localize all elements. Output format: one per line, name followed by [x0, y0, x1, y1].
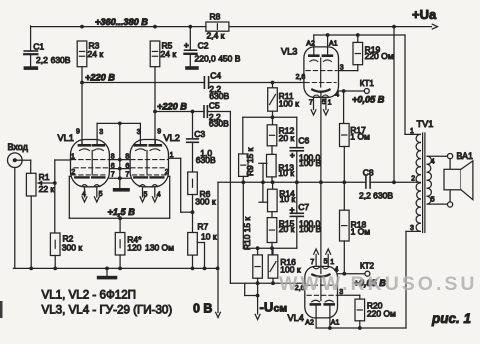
- label +Ua: [412, 7, 437, 22]
- node junction R3 top: [80, 25, 84, 29]
- node bus center: [118, 216, 122, 220]
- tube VL4 envelope: [305, 266, 338, 318]
- wire -Ucm arrow: [255, 283, 260, 319]
- wire R7 tap: [197, 243, 204, 269]
- svg-text:C4: C4: [210, 71, 221, 81]
- pin 4 VL2: [157, 192, 161, 199]
- label VL2: [164, 133, 180, 143]
- svg-text:A1: A1: [331, 320, 340, 327]
- svg-text:7: 7: [111, 171, 115, 178]
- node R17 R18 node: [342, 180, 346, 184]
- tube VL4 cathode: [312, 275, 329, 277]
- wire TV1 pin3 stub: [406, 230, 420, 232]
- wire R16 leads: [272, 248, 274, 283]
- wire VL3 screen to R19: [339, 70, 358, 72]
- svg-text:2,4 к: 2,4 к: [207, 30, 225, 40]
- svg-text:9: 9: [157, 129, 161, 136]
- wire tee right to C6: [296, 117, 298, 147]
- wire VL3 cathode drop: [320, 92, 322, 183]
- resistor R5: [150, 41, 176, 67]
- tube VL4 heater: [313, 267, 329, 269]
- pin 7 VL2 side: [125, 171, 129, 178]
- wire VL2 pin2 to bus: [169, 176, 170, 218]
- svg-text:300 к: 300 к: [195, 196, 216, 206]
- svg-text:1: 1: [71, 153, 75, 160]
- wire cathode feedback rail: [218, 181, 417, 183]
- svg-text:VL1, VL2 - 6Ф12П: VL1, VL2 - 6Ф12П: [42, 289, 137, 302]
- pin 4 TV1: [431, 159, 435, 166]
- svg-text:10 к: 10 к: [280, 194, 296, 204]
- resistor R12: [267, 125, 294, 146]
- svg-text:630В: 630В: [209, 119, 229, 129]
- tube VL2 center bar: [146, 151, 148, 175]
- svg-text:-U: -U: [260, 300, 274, 315]
- svg-text:+1,5 В: +1,5 В: [108, 207, 136, 217]
- svg-text:220,0: 220,0: [195, 53, 217, 63]
- wire R7 bottom: [192, 255, 194, 268]
- tube VL3 heater: [313, 95, 329, 97]
- label ris 1: [431, 311, 471, 326]
- label 2,6 VL4 grid: [295, 285, 305, 292]
- pin 4 VL3: [335, 92, 339, 99]
- wire R13 tap: [259, 163, 267, 182]
- svg-text:R10 15 к: R10 15 к: [242, 217, 252, 250]
- node R4 ground: [118, 267, 122, 271]
- svg-text:24 к: 24 к: [88, 49, 104, 59]
- svg-text:100 В: 100 В: [299, 224, 322, 234]
- svg-text:5: 5: [99, 191, 103, 198]
- tube VL3 grid dash: [305, 82, 336, 84]
- label +1,5 V: [108, 207, 136, 217]
- node R20 bottom: [358, 326, 362, 330]
- svg-text:9: 9: [76, 129, 80, 136]
- pin A2 VL4: [305, 320, 314, 327]
- svg-text:450 В: 450 В: [218, 53, 241, 63]
- pin 1 TV1: [410, 128, 414, 135]
- wire +220 line upper: [82, 67, 305, 83]
- tube VL2 grid dash low: [133, 174, 168, 176]
- tube VL1 cathode: [75, 176, 104, 178]
- wire VL2 pin1 to junction: [169, 158, 193, 212]
- resistor R3: [77, 41, 103, 67]
- tube VL1 grid dash mid: [74, 167, 109, 169]
- wire +220 line lower: [155, 67, 230, 112]
- node R7 bottom ground: [191, 267, 195, 271]
- tube VL2 pentode anode: [135, 140, 146, 146]
- tube VL4 grid dash: [306, 284, 336, 286]
- wire TV1 pin5 stub: [427, 203, 447, 205]
- wire TV1 pin2 stub: [417, 181, 421, 183]
- pin 1 VL4: [330, 259, 334, 266]
- svg-text:A1: A1: [329, 40, 338, 47]
- svg-text:3: 3: [340, 64, 344, 71]
- label +220 V second: [157, 101, 187, 111]
- ground C1: [24, 66, 38, 70]
- wire 8-8 link: [109, 159, 130, 161]
- capacitor C1: [24, 41, 71, 65]
- svg-text:1: 1: [330, 259, 334, 266]
- pin 1 VL2: [170, 152, 174, 159]
- wire C3 to R6: [192, 142, 194, 172]
- svg-text:2,2: 2,2: [36, 55, 48, 65]
- resistor R17: [340, 91, 371, 147]
- wire R6 to R7: [192, 195, 194, 233]
- resistor R18: [340, 182, 371, 241]
- wire +Ua to transformer: [393, 27, 395, 183]
- wire VL3 anode leads: [314, 35, 328, 55]
- pin 1 VL1: [71, 153, 75, 160]
- svg-text:2,6: 2,6: [296, 74, 306, 81]
- resistor R4: [115, 233, 174, 256]
- label R10 rotated: [242, 217, 252, 250]
- svg-text:10 к: 10 к: [278, 168, 294, 178]
- svg-text:4: 4: [82, 191, 86, 198]
- svg-text:1: 1: [328, 99, 332, 106]
- pin 3 VL1: [99, 129, 103, 136]
- svg-text:C1: C1: [33, 41, 44, 51]
- tube VL2 grid dash top: [131, 159, 168, 161]
- terminal KT1: [360, 79, 375, 93]
- wire VL1 pin9 feed: [81, 83, 83, 145]
- svg-text:R9 15 к: R9 15 к: [245, 147, 255, 176]
- svg-text:3: 3: [99, 129, 103, 136]
- pin A1 VL3: [329, 40, 338, 47]
- wire R18 bottom: [343, 241, 345, 274]
- wire VL4 grid bias line: [230, 282, 305, 284]
- svg-text:рис. 1: рис. 1: [431, 311, 471, 326]
- wire VL4 anode line: [316, 231, 406, 328]
- node R16 bottom: [271, 281, 275, 285]
- svg-text:C3: C3: [194, 129, 205, 139]
- tube VL3 cathode: [312, 90, 329, 92]
- wire VL2 pin9 feed: [154, 112, 156, 145]
- label +360...380 V: [95, 17, 148, 27]
- pin 4 VL4: [335, 266, 339, 273]
- pin 7 VL3: [309, 99, 313, 106]
- resistor R9: [239, 154, 248, 177]
- tube VL2 cathode: [134, 176, 163, 178]
- connector XS1 input jack: [8, 153, 23, 168]
- tube VL3 anodes: [309, 54, 332, 57]
- svg-text:3: 3: [410, 225, 414, 232]
- node A1 junction: [326, 33, 330, 37]
- svg-text:5: 5: [431, 197, 435, 204]
- wire C5 output drop: [229, 112, 231, 284]
- wire R4 bottom: [119, 255, 121, 268]
- wire VL3 heater arrows: [311, 97, 328, 115]
- label BA1: [457, 151, 473, 161]
- wire R13 bottom: [271, 177, 273, 182]
- label 0 V: [193, 302, 212, 316]
- pin 6 VL2 side: [125, 163, 129, 170]
- label +0,05 V KT2: [354, 278, 387, 288]
- svg-text:0 В: 0 В: [193, 302, 212, 316]
- resistor R20: [355, 295, 396, 321]
- svg-text:4: 4: [431, 159, 435, 166]
- pin 2 TV1: [411, 175, 415, 182]
- wire R11 bottom tee: [243, 111, 297, 125]
- terminal BA1 top: [448, 154, 453, 159]
- capacitor C6 electrolytic: [290, 135, 322, 168]
- node pin3 bridge center: [118, 122, 122, 126]
- resistor R11: [268, 88, 299, 111]
- wire R2 bottom: [54, 256, 56, 269]
- svg-text:см: см: [274, 303, 288, 315]
- node junction C2 top: [188, 25, 192, 29]
- pin 3 VL3: [340, 64, 344, 71]
- node R9 bottom: [241, 180, 245, 184]
- wire 0V arrow: [216, 182, 221, 317]
- pin A1 VL4: [331, 320, 340, 327]
- svg-text:5: 5: [144, 192, 148, 199]
- svg-text:+Ua: +Ua: [412, 7, 437, 22]
- label VL1: [58, 133, 74, 143]
- wire 6-6 link: [109, 168, 130, 170]
- pin 5 TV1: [431, 197, 435, 204]
- wire cathode bus: [69, 217, 169, 219]
- wire input to R1: [17, 160, 31, 173]
- tube VL1 anode arcs: [80, 149, 104, 151]
- svg-text:2: 2: [411, 175, 415, 182]
- node rail to 0V arrow: [216, 267, 220, 271]
- svg-text:C5: C5: [209, 101, 220, 111]
- resistor R6: [188, 172, 216, 206]
- tube VL1 grid dash top: [72, 159, 109, 161]
- node R15 R16 junction: [270, 246, 274, 250]
- node C6 C7 node: [295, 180, 299, 184]
- svg-text:R7: R7: [197, 222, 208, 232]
- svg-text:22 к: 22 к: [39, 184, 55, 194]
- resistor R16: [268, 255, 301, 278]
- wire VL2 heater arrows: [140, 187, 157, 202]
- wire R19 bottom: [357, 65, 359, 71]
- svg-text:1: 1: [170, 152, 174, 159]
- wire R9 bottom and drop: [242, 176, 244, 248]
- node VL2 grid junction: [191, 210, 195, 214]
- resistor R15: [267, 218, 294, 243]
- tube VL4 anodes: [311, 303, 334, 306]
- svg-text:TV1: TV1: [417, 119, 434, 129]
- node chassis ground stub: [105, 267, 109, 271]
- node 6 link: [118, 167, 122, 171]
- capacitor C5: [204, 101, 229, 129]
- tube VL3 envelope: [304, 47, 339, 97]
- svg-text:120: 120: [127, 242, 141, 252]
- label tube types line2: [42, 304, 173, 317]
- svg-text:20 к: 20 к: [279, 133, 295, 143]
- wire TV1 pin1 stub: [405, 133, 420, 135]
- wire tee left to R9: [242, 117, 244, 154]
- wire R11 top lead: [272, 83, 274, 88]
- wire 7-7 link: [109, 177, 130, 179]
- node R10 top junction: [256, 246, 260, 250]
- svg-text:630В: 630В: [196, 155, 216, 165]
- node wiper junction: [53, 181, 57, 185]
- svg-text:C6: C6: [298, 135, 309, 145]
- svg-text:R1: R1: [39, 172, 50, 182]
- wire -Ucm stub: [245, 283, 258, 295]
- svg-text:+: +: [184, 41, 189, 50]
- watermark www.rkuso.su: [279, 273, 477, 296]
- wire +360V top supply rail: [31, 24, 438, 29]
- wire VL3 pin4 line: [339, 90, 365, 92]
- resistor R1 potentiometer: [26, 172, 54, 196]
- resistor R13: [267, 154, 295, 178]
- tube VL2 triode anode: [150, 140, 161, 146]
- resistor R8: [206, 12, 229, 41]
- svg-text:1: 1: [410, 128, 414, 135]
- pin 9 VL2: [157, 129, 161, 136]
- resistor R14: [268, 189, 296, 212]
- scan artifact left edge: [0, 301, 3, 318]
- pin 1 VL3: [328, 99, 332, 106]
- svg-text:VL2: VL2: [164, 133, 180, 143]
- ground chassis on rail: [97, 268, 118, 279]
- svg-text:220 Ом: 220 Ом: [365, 51, 394, 61]
- label VL3: [281, 47, 297, 57]
- svg-text:1 Ом: 1 Ом: [351, 226, 371, 236]
- tube VL2 grid dash mid: [131, 167, 165, 169]
- wire R14 R15: [271, 212, 273, 218]
- svg-text:8: 8: [111, 153, 115, 160]
- pin 3 TV1: [410, 225, 414, 232]
- svg-text:R8: R8: [210, 12, 221, 22]
- svg-text:Вход: Вход: [8, 142, 29, 152]
- pin 2 VL2: [165, 169, 169, 176]
- wire R20 bottom lead: [359, 321, 361, 328]
- wire C1 to rail: [30, 26, 32, 66]
- svg-text:+220 В: +220 В: [157, 101, 187, 111]
- node 8 link: [118, 158, 122, 162]
- wire 0V ground rail: [14, 267, 219, 269]
- svg-text:КТ2: КТ2: [360, 262, 375, 271]
- wire VL4 screen to R20: [338, 294, 360, 296]
- svg-text:630В: 630В: [51, 55, 71, 65]
- wire center drop: [119, 123, 121, 188]
- wire R1 wiper: [37, 180, 55, 185]
- svg-text:6: 6: [125, 163, 129, 170]
- tube VL1 envelope: [71, 140, 110, 187]
- svg-text:24 к: 24 к: [161, 49, 177, 59]
- node R11 top junction: [271, 81, 275, 85]
- pin 7 VL1 side: [111, 171, 115, 178]
- wire TV1 pin4 stub: [427, 155, 447, 157]
- node R10 bottom: [256, 281, 260, 285]
- node R13 bottom: [271, 180, 275, 184]
- node R11 R12 junction: [271, 115, 275, 119]
- wire R12 R13: [271, 146, 273, 155]
- transformer TV1 primary winding: [416, 134, 420, 231]
- transformer TV1 core: [423, 133, 425, 233]
- tube VL3 screen dash: [306, 70, 337, 72]
- node pin4 R18 junction: [342, 272, 346, 276]
- pin A2 VL3: [306, 40, 315, 47]
- label TV1: [417, 119, 434, 129]
- label VL4: [288, 313, 304, 323]
- speaker BA1: [444, 161, 473, 200]
- svg-text:130 Ом: 130 Ом: [145, 242, 174, 252]
- svg-text:+: +: [290, 204, 295, 214]
- node C3 tap: [191, 110, 195, 114]
- svg-text:C7: C7: [298, 202, 309, 212]
- svg-text:5: 5: [324, 259, 328, 266]
- wire R15 bottom: [271, 243, 273, 255]
- svg-text:10 к: 10 к: [201, 232, 217, 242]
- pin 5 VL1: [99, 191, 103, 198]
- terminal BA1 bottom: [448, 202, 453, 207]
- wire C3 top lead: [192, 112, 194, 139]
- ground inter-tube: [113, 188, 130, 192]
- wire wiper to VL1 grid: [55, 160, 71, 183]
- node VL3 cathode node: [319, 180, 323, 184]
- svg-text:+360...380 В: +360...380 В: [95, 17, 148, 27]
- node R2 ground: [53, 267, 57, 271]
- resistor R19: [353, 35, 394, 65]
- pin 3 VL2: [137, 129, 141, 136]
- node Ua drop C8 node: [392, 180, 396, 184]
- capacitor C4: [204, 71, 229, 102]
- node R3 bottom junction: [80, 81, 84, 85]
- wire C2 lead: [189, 27, 191, 67]
- tube VL1 pentode anode: [93, 140, 104, 146]
- capacitor C3: [187, 129, 216, 165]
- wire VL4 heater arrows: [314, 249, 331, 266]
- tube VL3 center bar: [320, 58, 322, 87]
- svg-text:4: 4: [157, 192, 161, 199]
- wire VL4 anode leads: [316, 306, 330, 329]
- capacitor C8: [359, 167, 393, 200]
- svg-text:+0,05 В: +0,05 В: [352, 95, 385, 105]
- svg-text:300 к: 300 к: [62, 242, 83, 252]
- node junction +Ua drop: [392, 25, 396, 29]
- resistor R2: [50, 233, 82, 256]
- node junction R5 top: [153, 25, 157, 29]
- wire R14 top: [272, 182, 274, 189]
- svg-text:ВА1: ВА1: [457, 151, 473, 161]
- pin 5 VL4: [324, 259, 328, 266]
- svg-text:7: 7: [309, 99, 313, 106]
- pin 3 VL4: [339, 289, 343, 296]
- node R7 tap ground: [203, 267, 207, 271]
- resistor R7: [188, 222, 217, 256]
- pin 8 VL1 side: [111, 153, 115, 160]
- svg-text:6: 6: [111, 163, 115, 170]
- tube VL4 screen dash: [307, 294, 337, 296]
- node R5 bottom junction: [153, 110, 157, 114]
- svg-text:5: 5: [322, 99, 326, 106]
- wire C7 bottom elbow: [243, 216, 296, 248]
- wire R1 bottom: [30, 196, 32, 268]
- pin 5 VL2: [144, 192, 148, 199]
- pin 7 VL4: [310, 259, 314, 266]
- label Vhod input: [8, 142, 29, 152]
- svg-text:100 к: 100 к: [279, 99, 300, 109]
- wire R14 tap: [259, 182, 268, 202]
- tube VL2 heater: [140, 185, 158, 187]
- wire R10 leads: [257, 248, 259, 283]
- node R13 tap node: [261, 180, 265, 184]
- pin 2 VL1: [71, 169, 75, 176]
- resistor R10: [253, 255, 263, 278]
- svg-text:7: 7: [125, 171, 129, 178]
- wire VL1 heater arrows: [82, 187, 99, 202]
- svg-text:VL3: VL3: [281, 47, 297, 57]
- svg-text:A2: A2: [306, 40, 315, 47]
- svg-text:2: 2: [71, 169, 75, 176]
- svg-text:VL1: VL1: [58, 133, 74, 143]
- wire BA1 leads: [449, 159, 451, 202]
- svg-text:8: 8: [125, 153, 129, 160]
